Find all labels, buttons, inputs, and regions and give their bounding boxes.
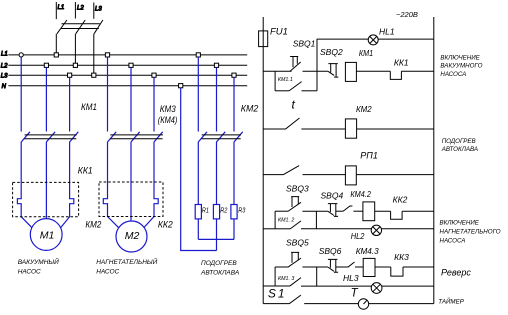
wire rung4 SBQ4 to aux contact bbox=[336, 210, 343, 212]
svg-text:КМ1: КМ1 bbox=[81, 101, 97, 112]
svg-text:КК1: КК1 bbox=[394, 57, 409, 67]
contactor KM1 main contact pole 1 bbox=[21, 132, 30, 142]
bus L2 bbox=[8, 64, 247, 66]
wire motor1 phase C lower with KK1 heater jog bbox=[61, 142, 74, 228]
wire motor2 phase B lower bbox=[130, 142, 132, 222]
wire heater R3 upper bbox=[233, 77, 235, 131]
svg-text:SBQ3: SBQ3 bbox=[286, 183, 309, 193]
wire KM1.2 / HL2 branch to right rail bbox=[301, 228, 434, 230]
svg-text:КК1: КК1 bbox=[78, 165, 93, 176]
pushbutton SBQ3 contact bbox=[288, 202, 301, 211]
contactor KM1 main contact pole 3 bbox=[70, 132, 79, 142]
svg-text:КМ4.3: КМ4.3 bbox=[356, 246, 379, 256]
svg-text:НАСОС: НАСОС bbox=[96, 269, 119, 276]
junction on L2 (motor 1 wire) bbox=[44, 63, 48, 67]
svg-text:Т: Т bbox=[351, 288, 359, 300]
bus N bbox=[8, 85, 247, 87]
coil RP1 bbox=[345, 166, 356, 185]
thermal contact KK2 bbox=[391, 211, 403, 219]
pushbutton SBQ3 actuator bbox=[291, 197, 299, 207]
svg-text:КМ2: КМ2 bbox=[241, 103, 258, 113]
wire motor1 phase A lower with KK1 heater jog bbox=[17, 142, 31, 228]
coil KM1 bbox=[345, 62, 356, 81]
coil KM2 bbox=[345, 119, 356, 138]
junction on L2 (motor 2 wire) bbox=[129, 63, 133, 67]
junction on L3 (motor 2 wire) bbox=[152, 73, 156, 77]
switch QF pole 2 blade bbox=[76, 20, 86, 34]
wire rung4 KK2 to right rail bbox=[402, 210, 434, 212]
contactor KM2 linkage bbox=[201, 135, 241, 139]
junction on N (heater neutral wire) bbox=[179, 84, 183, 88]
svg-text:КМ1. 2: КМ1. 2 bbox=[278, 217, 294, 223]
svg-text:−220В: −220В bbox=[396, 10, 418, 19]
coil KM4.2 bbox=[363, 202, 375, 221]
svg-text:HL3: HL3 bbox=[343, 273, 359, 283]
svg-text:HL2: HL2 bbox=[351, 232, 365, 242]
svg-text:L3: L3 bbox=[95, 6, 102, 12]
svg-text:КМ1. 3: КМ1. 3 bbox=[278, 276, 294, 282]
bus L3 bbox=[8, 74, 247, 76]
pushbutton SBQ2 actuator bbox=[328, 64, 338, 78]
wire KM1.3 / HL3 branch to right rail bbox=[301, 285, 434, 287]
wire R3 bottom bbox=[233, 219, 235, 240]
svg-text:L3: L3 bbox=[1, 73, 8, 79]
wire L3 input lower segment bbox=[93, 34, 95, 75]
wire bottom rung rail to S1 bbox=[263, 303, 289, 305]
svg-text:РП1: РП1 bbox=[360, 150, 378, 160]
svg-text:НАСОС: НАСОС bbox=[18, 269, 41, 276]
switch S1 contact bbox=[289, 295, 301, 304]
pushbutton SBQ5 contact bbox=[288, 258, 301, 267]
wire rung1 from rail to SBQ1 bbox=[263, 70, 291, 72]
svg-text:ВКЛЮЧЕНИЕ: ВКЛЮЧЕНИЕ bbox=[440, 219, 480, 226]
wire rung4 SBQ3 to SBQ4 bbox=[302, 210, 328, 212]
svg-text:R3: R3 bbox=[238, 207, 246, 215]
svg-text:S1: S1 bbox=[268, 287, 287, 301]
thermal relay KK1 box bbox=[13, 182, 79, 216]
wire motor1 phase A upper bbox=[20, 57, 22, 132]
svg-text:АВТОКЛАВА: АВТОКЛАВА bbox=[441, 146, 478, 153]
wire rung4 riser bbox=[274, 211, 276, 229]
bus L1 bbox=[8, 54, 247, 56]
aux contact (rung 4) bbox=[343, 206, 353, 211]
wire KM1.2 branch left segment bbox=[275, 228, 290, 230]
fuse FU1 bbox=[259, 31, 268, 47]
wire heater star link bbox=[198, 238, 234, 240]
wire rung2 contact to coil bbox=[301, 128, 345, 130]
svg-text:t: t bbox=[292, 98, 296, 112]
contact of relay (rung 3) bbox=[283, 166, 299, 175]
wire rung5 main to SBQ5 bbox=[275, 266, 288, 268]
resistor R2 bbox=[213, 205, 219, 219]
thermal relay KK2 box bbox=[99, 182, 163, 217]
svg-text:АВТОКЛАВА: АВТОКЛАВА bbox=[200, 270, 239, 277]
svg-text:КМ1: КМ1 bbox=[359, 48, 373, 58]
wire rung5 riser bbox=[274, 267, 276, 286]
pushbutton SBQ4 contact bbox=[328, 211, 334, 215]
wire motor1 phase B lower bbox=[45, 142, 47, 219]
contact KM1.1 bbox=[289, 82, 302, 91]
pushbutton SBQ4 actuator bbox=[328, 204, 338, 217]
junction on L1 (motor 1 wire) bbox=[19, 53, 23, 57]
junction on L2 (input pole) bbox=[73, 63, 77, 67]
svg-text:R2: R2 bbox=[220, 207, 228, 215]
wire rung5 junction vertical bbox=[316, 267, 318, 286]
wire rung5 SBQ6 to aux contact bbox=[336, 266, 348, 268]
wire R2 bottom bbox=[216, 219, 218, 251]
svg-text:КК3: КК3 bbox=[394, 252, 409, 262]
svg-text:ПОДОГРЕВ: ПОДОГРЕВ bbox=[442, 138, 476, 145]
svg-text:КК2: КК2 bbox=[158, 219, 173, 230]
wire rung4 aux contact to coil bbox=[353, 210, 363, 212]
junction on L1 (heater wire R1) bbox=[196, 53, 200, 57]
svg-text:КМ1.1: КМ1.1 bbox=[278, 77, 293, 83]
wire heater R3 lower bbox=[233, 142, 235, 205]
contactor KM1 main contact pole 2 bbox=[46, 132, 55, 142]
motor M2 bbox=[116, 221, 147, 252]
wire rung4 feed from rail (branch level) bbox=[263, 228, 275, 230]
wire KM1.3 branch left segment bbox=[275, 285, 290, 287]
aux contact (rung 5) bbox=[348, 262, 355, 267]
lamp HL3 bbox=[371, 283, 382, 294]
lamp HL1 bbox=[368, 35, 378, 45]
svg-text:М1: М1 bbox=[40, 229, 55, 241]
svg-text:Реверс: Реверс bbox=[441, 267, 471, 277]
svg-text:L2: L2 bbox=[77, 5, 84, 11]
svg-text:ПОДОГРЕВ: ПОДОГРЕВ bbox=[201, 260, 237, 267]
wire rung3 contact to coil bbox=[303, 174, 346, 176]
contactor KM2 main contact pole 3 bbox=[234, 132, 243, 142]
wire rung4 junction vertical bbox=[315, 211, 317, 229]
wire L1 input lower segment bbox=[55, 34, 57, 55]
pushbutton SBQ1 actuator bbox=[290, 57, 298, 68]
svg-text:SBQ2: SBQ2 bbox=[320, 47, 343, 57]
wire L2 input lower segment bbox=[74, 34, 76, 66]
coil KM4.3 bbox=[363, 258, 375, 276]
wire rung3 rail to contact bbox=[263, 174, 283, 176]
svg-text:НАГНЕТАТЕЛЬНОГО: НАГНЕТАТЕЛЬНОГО bbox=[440, 229, 501, 236]
wire L2 input upper segment bbox=[74, 2, 76, 19]
wire rung4 main to SBQ3 bbox=[275, 210, 288, 212]
svg-text:НАСОСА: НАСОСА bbox=[440, 71, 466, 78]
wire heater R1 lower bbox=[197, 142, 199, 205]
wire rung2 rail to t contact bbox=[263, 128, 285, 130]
resistor R1 bbox=[195, 205, 201, 219]
pushbutton SBQ6 contact bbox=[328, 267, 334, 271]
contact t (thermostat) bbox=[285, 118, 299, 129]
contactor KM1 linkage bbox=[24, 135, 76, 139]
wire bottom rung timer to right rail bbox=[369, 303, 434, 305]
right control rail bbox=[433, 17, 435, 304]
contactor KM3 main contact pole 2 bbox=[131, 132, 140, 142]
switch QF pole 1 blade bbox=[57, 20, 67, 34]
svg-text:HL1: HL1 bbox=[379, 26, 395, 36]
svg-text:КМ2: КМ2 bbox=[85, 219, 101, 230]
junction on L3 (motor 1 wire) bbox=[68, 73, 72, 77]
svg-text:SBQ5: SBQ5 bbox=[286, 237, 309, 247]
svg-text:КК2: КК2 bbox=[393, 194, 408, 204]
wire rung1 KK1 to right rail bbox=[401, 70, 433, 72]
junction on L1 (motor 2 wire) bbox=[105, 53, 109, 57]
wire motor2 phase A upper bbox=[107, 57, 109, 132]
svg-text:ВАКУУМНОГО: ВАКУУМНОГО bbox=[440, 63, 482, 70]
pushbutton SBQ6 actuator bbox=[328, 259, 338, 272]
svg-text:ВАКУУМНЫЙ: ВАКУУМНЫЙ bbox=[18, 257, 59, 266]
switch QF pole 3 blade bbox=[94, 20, 103, 34]
svg-text:L1: L1 bbox=[58, 5, 65, 11]
svg-text:ВКЛЮЧЕНИЕ: ВКЛЮЧЕНИЕ bbox=[440, 55, 480, 62]
contact KM1.2 bbox=[290, 221, 301, 229]
motor M1 bbox=[30, 219, 62, 251]
svg-text:L1: L1 bbox=[1, 52, 8, 58]
thermal contact KK3 bbox=[391, 267, 403, 276]
contactor KM2 main contact pole 1 bbox=[198, 132, 207, 142]
wire KM1.1 branch right segment bbox=[302, 90, 318, 92]
svg-text:КМ3: КМ3 bbox=[160, 103, 176, 114]
wire motor2 phase C lower with KK2 heater jog bbox=[143, 142, 158, 229]
wire motor2 phase A lower with KK2 heater jog bbox=[103, 142, 119, 229]
timer T bbox=[358, 299, 368, 309]
pushbutton SBQ2 contact bbox=[328, 71, 334, 75]
lamp HL2 bbox=[371, 225, 381, 235]
wire rung2 coil to right rail bbox=[357, 128, 434, 130]
junction on L2 (heater wire R2) bbox=[214, 63, 218, 67]
pushbutton SBQ1 contact bbox=[290, 62, 301, 71]
svg-text:SBQ6: SBQ6 bbox=[319, 246, 342, 256]
wire rung3 coil to right rail bbox=[356, 174, 434, 176]
junction on L3 (input pole) bbox=[92, 73, 96, 77]
wire motor2 phase B upper bbox=[130, 67, 132, 131]
svg-text:L2: L2 bbox=[1, 63, 8, 69]
contactor KM3 main contact pole 3 bbox=[154, 132, 163, 142]
wire junction vertical (HL1 / main / KM1.1 branch) bbox=[316, 39, 318, 91]
wire heater R2 lower bbox=[216, 142, 218, 205]
svg-text:SBQ1: SBQ1 bbox=[293, 38, 316, 48]
wire rung5 KK3 to right rail bbox=[403, 266, 434, 268]
wire R1 bottom bbox=[197, 219, 199, 240]
thermal contact KK1 bbox=[390, 71, 401, 79]
svg-text:КМ4.2: КМ4.2 bbox=[350, 189, 371, 199]
wire rung1 coil to KK1 contact bbox=[356, 70, 390, 72]
contactor KM2 main contact pole 2 bbox=[217, 132, 226, 142]
wire KM1.1 branch left segment bbox=[275, 90, 289, 92]
left control rail bbox=[262, 17, 264, 304]
svg-text:НАГНЕТАТЕЛЬНЫЙ: НАГНЕТАТЕЛЬНЫЙ bbox=[96, 257, 157, 266]
svg-text:М2: М2 bbox=[125, 230, 140, 242]
wire rung4 coil to KK2 contact bbox=[375, 210, 391, 212]
wire rung5 SBQ5 to SBQ6 bbox=[302, 266, 328, 268]
wire bottom rung S1 to timer bbox=[304, 303, 358, 305]
wire motor2 phase C upper bbox=[153, 77, 155, 131]
resistor R3 bbox=[231, 205, 237, 219]
contactor KM3 main contact pole 1 bbox=[108, 132, 117, 142]
wire L1 input upper segment bbox=[55, 2, 57, 19]
wire HL1 branch bbox=[317, 38, 434, 40]
contactor KM3 linkage bbox=[110, 135, 163, 139]
switch QF linkage bbox=[61, 24, 100, 29]
svg-text:SBQ4: SBQ4 bbox=[321, 190, 344, 200]
wire motor1 phase C upper bbox=[69, 77, 71, 131]
wire rung5 aux contact to coil bbox=[355, 266, 363, 268]
svg-text:НАСОСА: НАСОСА bbox=[440, 238, 466, 245]
svg-text:R1: R1 bbox=[202, 207, 209, 215]
svg-text:FU1: FU1 bbox=[270, 26, 288, 37]
wire heater R1 upper bbox=[197, 57, 199, 132]
contact KM1.3 bbox=[290, 278, 301, 287]
svg-text:КМ2: КМ2 bbox=[356, 105, 372, 114]
wire rung5 feed from rail (branch level) bbox=[263, 285, 275, 287]
wire heater neutral from N bus to star point bbox=[181, 88, 217, 251]
wire rung5 coil to KK3 contact bbox=[375, 266, 391, 268]
junction on L1 (input pole) bbox=[54, 53, 58, 57]
svg-text:N: N bbox=[2, 84, 7, 90]
svg-text:(КМ4): (КМ4) bbox=[158, 114, 178, 125]
wire rung1 SBQ1 to SBQ2 bbox=[303, 70, 329, 72]
svg-text:ТАЙМЕР: ТАЙМЕР bbox=[438, 297, 464, 305]
junction on L3 (heater wire R3) bbox=[232, 73, 236, 77]
pushbutton SBQ5 actuator bbox=[291, 252, 299, 262]
wire motor1 phase B upper bbox=[45, 67, 47, 131]
wire KM1.1 branch drop bbox=[274, 71, 276, 91]
wire heater R2 upper bbox=[216, 67, 218, 131]
wire L3 input upper segment bbox=[93, 3, 95, 19]
